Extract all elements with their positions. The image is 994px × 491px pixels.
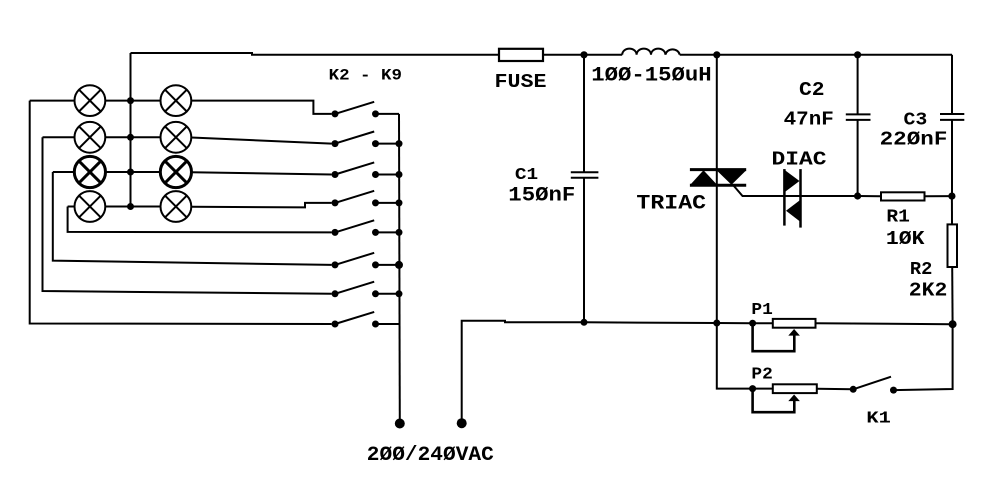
triac U1 left triangle (691, 170, 717, 184)
resistor R2 body (948, 224, 958, 267)
wire switch row2 to bus (376, 143, 400, 145)
triac U1 main vertical (716, 55, 718, 323)
lamp La6 (bold) (160, 156, 191, 187)
svg-text:2K2: 2K2 (909, 279, 948, 301)
switch K5 (332, 191, 380, 207)
node P2 left (749, 385, 756, 392)
wire right bus down to K1 (894, 324, 953, 390)
switch K4 (332, 162, 380, 178)
svg-text:P2: P2 (751, 366, 772, 385)
lamp La1 (75, 85, 106, 116)
svg-text:2ØØ/24ØVAC: 2ØØ/24ØVAC (367, 444, 494, 467)
wire switch row6 to bus (376, 264, 400, 266)
node lamp bus row3 (127, 169, 134, 176)
svg-text:R1: R1 (886, 208, 910, 228)
wire bottom rail P1 to right bus (816, 322, 953, 325)
triac U1 right triangle (717, 171, 746, 185)
triac U1 top bar (690, 168, 746, 171)
inductor L1 100-150uH (622, 49, 680, 55)
capacitor C1 plates (571, 171, 599, 173)
switch K2 (332, 102, 380, 118)
potentiometer P2 wiper arrow (788, 395, 800, 402)
svg-text:15ØnF: 15ØnF (508, 185, 575, 208)
node bottom rail right bus (949, 320, 957, 328)
svg-text:22ØnF: 22ØnF (880, 129, 948, 151)
lamp La5 (bold) (74, 156, 105, 187)
potentiometer P1 body (773, 319, 816, 328)
resistor R1 body (881, 192, 925, 200)
svg-text:47nF: 47nF (784, 108, 834, 130)
svg-text:K2 - K9: K2 - K9 (329, 67, 402, 85)
wire lamp bus vertical (130, 53, 132, 207)
node top rail at triac (713, 51, 720, 58)
svg-text:TRIAC: TRIAC (636, 193, 706, 216)
node P1 left (749, 320, 756, 327)
node bottom rail at C1 (581, 319, 588, 326)
switch K8 (332, 282, 380, 298)
lamp La8 (161, 191, 192, 222)
wire right bus R2 to bottom rail (951, 267, 953, 324)
svg-text:1ØK: 1ØK (886, 228, 925, 250)
wire lamp row 4 (68, 206, 75, 208)
wire diac to R1 (858, 195, 881, 197)
wire left bracket 4 (lamp row4 to switch row5) (68, 207, 332, 233)
wire lamp row 1 (30, 100, 74, 102)
triac U1 bottom bar (690, 184, 746, 187)
lamp La2 (161, 85, 192, 116)
wire lamp row 2 (43, 136, 75, 138)
node bus row3 (396, 171, 403, 178)
wire P2 wiper loop (753, 389, 795, 413)
diac D1 upper triangle (785, 170, 800, 192)
svg-text:FUSE: FUSE (495, 71, 547, 93)
lamp La4 (161, 122, 192, 153)
wire gate of triac to diac (734, 186, 858, 197)
switch K7 (332, 253, 380, 269)
wire left bracket 1 (lamp row1 to switch row8) (30, 101, 332, 324)
switch K9 (332, 312, 380, 328)
wire R1 to right bus (925, 195, 952, 197)
fuse F1 body (499, 49, 543, 61)
wire switch row5 to bus (376, 231, 400, 233)
svg-text:C1: C1 (515, 166, 538, 185)
diac D1 right bar (799, 169, 802, 228)
node bus row6 (395, 261, 403, 269)
node bottom rail at triac (713, 320, 720, 327)
node bus row7 (396, 290, 403, 297)
wire lamp row 3 (53, 171, 74, 173)
node bus row2 (396, 140, 403, 147)
capacitor C2 leads (857, 55, 859, 115)
svg-text:C2: C2 (799, 79, 825, 101)
lamp La3 (75, 122, 106, 153)
capacitor C1 leads (583, 55, 585, 172)
switch K6 (332, 220, 380, 236)
svg-text:R2: R2 (910, 260, 933, 280)
wire inductor to C2 corner (680, 54, 952, 56)
switch K3 (332, 132, 380, 148)
diac D1 lower triangle (786, 200, 800, 221)
node top rail at C1 (580, 51, 587, 58)
wire switch bank right bus (398, 114, 401, 424)
wire left bracket 3 (lamp row3 to switch row6) (53, 172, 332, 265)
wire switch row4 to bus (376, 202, 400, 204)
svg-text:K1: K1 (866, 410, 890, 429)
wire right bus R1 to R2 (951, 196, 953, 224)
wire top main L+ rail (131, 53, 500, 55)
wire P2 branch from triac bottom (717, 323, 773, 389)
svg-text:P1: P1 (751, 301, 772, 320)
svg-text:1ØØ-15ØuH: 1ØØ-15ØuH (591, 65, 711, 88)
terminal mains 2 (457, 418, 467, 428)
wire P1 wiper loop (753, 323, 795, 351)
terminal mains 1 (395, 419, 405, 429)
node R1 right (948, 193, 955, 200)
node lamp bus row1 (127, 97, 134, 104)
wire switch row8 to bus (376, 323, 400, 325)
capacitor C3 plates (940, 113, 964, 115)
node lamp bus row2 (127, 134, 134, 141)
svg-text:C3: C3 (904, 110, 928, 130)
wire switch row7 to bus (376, 293, 400, 295)
capacitor C3 leads (951, 55, 953, 114)
wire left bracket 2 (lamp row2 to switch row7) (43, 137, 332, 293)
wire switch row1 to bus (376, 113, 400, 115)
lamp La7 (75, 191, 106, 222)
svg-text:DIAC: DIAC (772, 149, 827, 171)
node diac output (854, 192, 861, 199)
node lamp bus row4 (127, 203, 134, 210)
node bus row4 (396, 199, 403, 206)
switch K1 (850, 377, 897, 394)
diac D1 left bar (783, 169, 786, 226)
node top rail at C2 (854, 51, 861, 58)
capacitor C2 plates (846, 113, 871, 115)
wire mains line 2 riser (462, 321, 773, 423)
potentiometer P1 wiper arrow (788, 329, 800, 336)
wire switch row3 to bus (376, 174, 400, 176)
wire fuse to inductor (543, 54, 622, 56)
wire P2 to K1 (817, 388, 853, 391)
potentiometer P2 body (773, 384, 817, 393)
node bus row5 (396, 229, 403, 236)
